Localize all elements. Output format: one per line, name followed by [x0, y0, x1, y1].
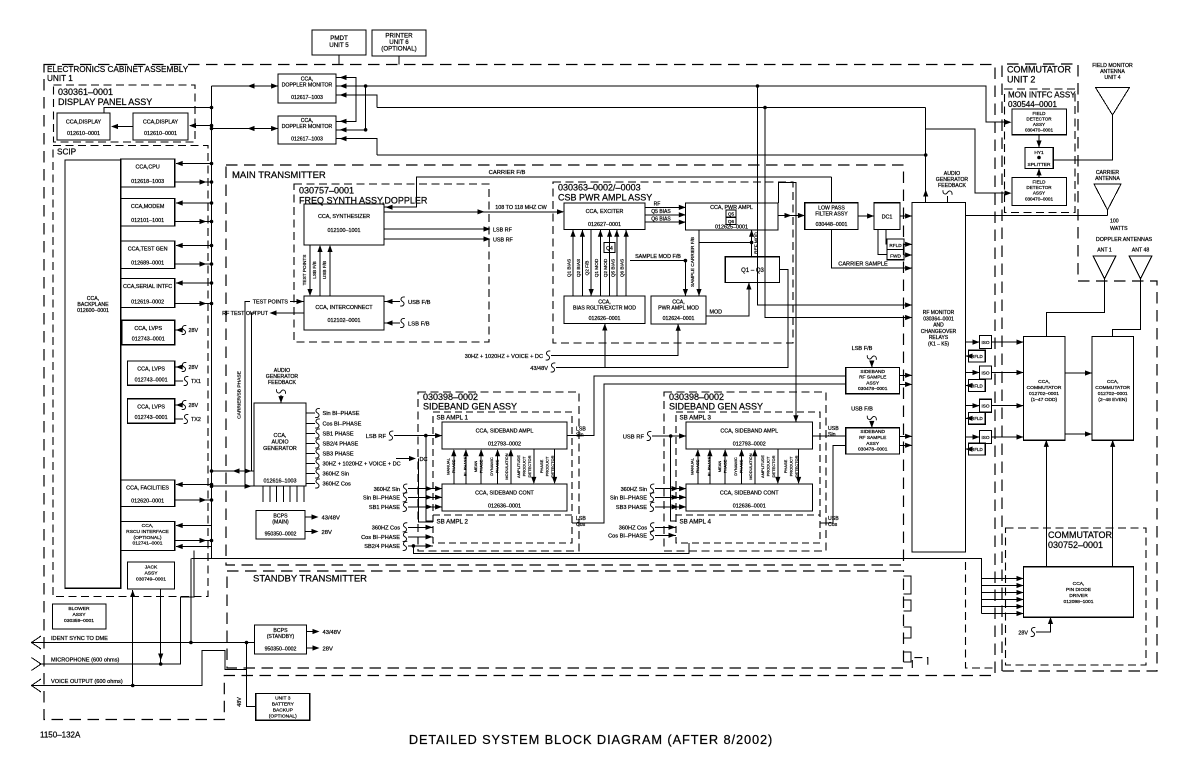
wire: Q1-Q3 output loop [605, 269, 788, 367]
wire: right gen cos-group inputs [655, 526, 676, 528]
svg-text:ASSY: ASSY [1033, 122, 1045, 127]
box: CCA,DISPLAY left 012610-0001 [57, 113, 110, 140]
wire: ANT 1 to commutator odd [1046, 279, 1104, 336]
box: CCA,DISPLAY right 012610-0001 [133, 113, 188, 140]
svg-text:IDENT SYNC TO DME: IDENT SYNC TO DME [51, 636, 108, 642]
svg-text:FWD: FWD [890, 253, 901, 258]
svg-text:030364–0001: 030364–0001 [923, 316, 954, 322]
box: BLOWER ASSY 030359-0001 [53, 604, 107, 629]
svg-text:48V: 48V [237, 697, 243, 707]
wire: carrier antenna 100 WATTS line [966, 210, 1108, 216]
svg-text:Q5: Q5 [728, 212, 735, 217]
svg-text:PRODUCT: PRODUCT [545, 456, 550, 476]
svg-text:ANT 1: ANT 1 [1097, 248, 1112, 254]
svg-text:BACKUP: BACKUP [273, 708, 293, 714]
svg-text:Q6 BIAS: Q6 BIAS [620, 259, 625, 277]
svg-text:(OPTIONAL): (OPTIONAL) [134, 535, 162, 541]
svg-text:ASSY: ASSY [866, 441, 880, 447]
svg-text:CSB PWR AMPL ASSY: CSB PWR AMPL ASSY [558, 193, 652, 203]
svg-text:PRODUCT: PRODUCT [522, 456, 527, 476]
box: RF MONITOR 030364-0001 AND CHANGEOVER RELAYS (K1 - K5) [912, 203, 966, 553]
svg-text:Q2 BIAS: Q2 BIAS [576, 259, 581, 277]
svg-text:SB AMPL 3: SB AMPL 3 [680, 415, 712, 422]
wire: CARRIER SAMPLE [831, 230, 911, 269]
wire: LSB Sin to sample assy [567, 376, 845, 435]
svg-text:PIN DIODE: PIN DIODE [1066, 587, 1092, 593]
wire: doppler lower right-side feeds [336, 130, 377, 155]
svg-text:28V: 28V [323, 647, 333, 653]
box: FIELD DETECTOR ASSY 030470-0001 upper [1012, 109, 1067, 135]
svg-text:CCA,: CCA, [672, 300, 684, 306]
svg-text:CCA,SERIAL INTFC: CCA,SERIAL INTFC [123, 284, 172, 290]
wire: pin diode driver to commutator even [1112, 441, 1114, 567]
wire: audio generator feedback drop [943, 190, 952, 195]
svg-text:BI–PHASE: BI–PHASE [707, 456, 712, 476]
svg-text:Q1 – Q3: Q1 – Q3 [741, 268, 764, 274]
svg-text:012616–1003: 012616–1003 [264, 479, 297, 485]
wire: jack assy to voice line [132, 590, 134, 686]
svg-text:012100–1001: 012100–1001 [328, 228, 361, 234]
svg-text:360HZ Cos: 360HZ Cos [323, 482, 351, 488]
svg-text:ANT 48: ANT 48 [1132, 248, 1150, 254]
wire: PRINTER stem [398, 56, 400, 65]
box: CCA, SYNTHESIZER 012100-1001 [304, 204, 384, 245]
svg-text:RFLD: RFLD [971, 383, 982, 388]
svg-text:43/48V: 43/48V [323, 630, 342, 636]
wire: display left box top to bus [104, 108, 212, 114]
svg-text:012600–0001: 012600–0001 [77, 308, 109, 314]
svg-text:012101–1001: 012101–1001 [131, 218, 164, 224]
svg-text:CCA, EXCITER: CCA, EXCITER [586, 209, 624, 215]
svg-text:RSCU INTERFACE: RSCU INTERFACE [126, 529, 169, 535]
svg-text:30HZ + 1020HZ + VOICE + DC: 30HZ + 1020HZ + VOICE + DC [323, 462, 401, 468]
box: CCA, SIDEBAND AMPL 012793-0002 [686, 422, 813, 449]
svg-text:030757–0001: 030757–0001 [299, 186, 354, 196]
svg-text:SB AMPL 2: SB AMPL 2 [437, 519, 469, 526]
svg-text:012793–0002: 012793–0002 [733, 442, 766, 448]
box: JACK ASSY 030749-0001 [128, 562, 175, 589]
svg-text:USB F/B: USB F/B [408, 300, 431, 306]
box: CCA, BIAS RGLTR/EXCTR MOD 012626-0001 [564, 296, 645, 324]
svg-text:030398–0002: 030398–0002 [423, 392, 478, 402]
box: CCA, DOPPLER MONITOR lower 012617-1003 [278, 116, 336, 144]
svg-text:012702–0001: 012702–0001 [1029, 391, 1059, 397]
box: CCA, PIN DIODE DRIVER 012098-1001 [1023, 567, 1133, 618]
component: ISO/RFLD relay taps [966, 341, 979, 343]
svg-text:TX2: TX2 [191, 417, 201, 423]
enclosure: COMMUTATOR 030752-0001 (dashed) [1006, 528, 1147, 665]
enclosure: FREQ SYNTH ASSY,DOPPLER 030757-0001 (dashed) [294, 184, 489, 342]
svg-text:012741–0001: 012741–0001 [133, 541, 163, 547]
box: Q4 [604, 242, 615, 252]
svg-text:MON INTFC ASSY: MON INTFC ASSY [1008, 91, 1076, 100]
wire: USB F/B squiggle into sample assy [867, 416, 876, 421]
svg-text:030398–0002: 030398–0002 [669, 392, 724, 402]
wire: USB Sin to sample assy [813, 435, 846, 437]
wire: field det 1 to splitter [1038, 135, 1040, 147]
svg-text:MODULATION: MODULATION [504, 453, 509, 479]
enclosure: ELECTRONICS CABINET ASSEMBLY UNIT 1 (dashed outline) [44, 65, 995, 720]
box: CCA,MODEM 012101-1001 with bus wires [121, 199, 175, 227]
svg-text:BCPS: BCPS [273, 514, 288, 520]
svg-text:012620–0001: 012620–0001 [131, 499, 164, 505]
svg-text:SB AMPL 4: SB AMPL 4 [680, 519, 712, 526]
svg-text:28V: 28V [189, 328, 199, 334]
svg-text:CARRIER F/B: CARRIER F/B [489, 170, 526, 176]
svg-text:RF SAMPLE: RF SAMPLE [859, 375, 886, 381]
svg-text:LSB RF: LSB RF [493, 228, 513, 234]
svg-text:LSB F/B: LSB F/B [852, 346, 873, 352]
svg-text:DETECTOR: DETECTOR [550, 455, 555, 477]
box: UNIT 3 BATTERY BACKUP (OPTIONAL) [256, 694, 310, 721]
svg-text:ISO: ISO [981, 371, 989, 376]
wire: USB sample outputs to RF monitor [900, 436, 912, 445]
svg-text:MEAN: MEAN [473, 461, 478, 473]
svg-text:COMMUTATOR: COMMUTATOR [1027, 385, 1062, 391]
svg-text:100: 100 [1110, 219, 1119, 225]
box: BCPS (MAIN) 950350-0002 [256, 511, 305, 540]
wire: 28V into pin diode driver [1036, 618, 1051, 632]
wire: jack assy to microphone line [160, 589, 162, 664]
enclosure: COMMUTATOR UNIT 2 (dashed) [1002, 64, 1157, 671]
wire: bus to display right box [190, 125, 212, 127]
svg-text:CCA, SIDEBAND AMPL: CCA, SIDEBAND AMPL [720, 429, 778, 435]
svg-text:(OPTIONAL): (OPTIONAL) [381, 46, 416, 53]
wire: USB RF stub [384, 238, 489, 240]
svg-text:SB3 PHASE: SB3 PHASE [323, 452, 354, 458]
svg-text:TX1: TX1 [191, 379, 201, 385]
node: SCIP bus vertical 1 [211, 86, 213, 559]
svg-text:BATTERY: BATTERY [272, 702, 295, 708]
svg-text:Cos BI–PHASE: Cos BI–PHASE [608, 534, 647, 540]
svg-text:AMPLITUDE: AMPLITUDE [760, 455, 765, 478]
svg-text:DETAILED SYSTEM BLOCK DIAGR: DETAILED SYSTEM BLOCK DIAGRAM (AFTER 8/2… [409, 732, 773, 747]
wire: left gen cos-group inputs [408, 526, 433, 528]
svg-text:Q5 BIAS: Q5 BIAS [651, 209, 671, 215]
svg-text:BIAS RGLTR/EXCTR MOD: BIAS RGLTR/EXCTR MOD [573, 306, 636, 312]
svg-text:360HZ Cos: 360HZ Cos [619, 526, 647, 532]
svg-text:PRODUCT: PRODUCT [766, 456, 771, 476]
wire: long line doppler to RF monitor (net B) [377, 107, 926, 109]
svg-text:LSB F/B: LSB F/B [408, 322, 430, 328]
wire: PWR AMPL RF out to low pass filter [778, 215, 804, 217]
svg-text:360HZ Sin: 360HZ Sin [374, 487, 400, 493]
wire: SAMPLE CARRIER F/B vertical [698, 230, 700, 296]
wire: MOD pwr-ampl-mod to Q1-Q3 [706, 283, 749, 316]
svg-text:ISO: ISO [981, 404, 989, 409]
svg-text:VOICE OUTPUT (600 ohms): VOICE OUTPUT (600 ohms) [51, 679, 123, 685]
wire: pwr ampl riser to USB sideband ampl [779, 182, 796, 421]
box: CCA, FACILITIES 012620-0001 with bus wires [121, 480, 175, 507]
wire: TEST POINTS vertical synth-interconnect [309, 245, 311, 295]
svg-text:108 TO 118 MHZ CW: 108 TO 118 MHZ CW [495, 205, 547, 211]
svg-text:030363–0002/–0003: 030363–0002/–0003 [558, 183, 641, 193]
wire: LPF to DC1 [858, 215, 873, 217]
svg-text:012689–0001: 012689–0001 [131, 261, 164, 267]
svg-text:(STANDBY): (STANDBY) [267, 634, 295, 640]
wire: LSB sample outputs to RF monitor [900, 375, 912, 384]
svg-text:SB AMPL 1: SB AMPL 1 [437, 415, 469, 422]
svg-text:030470–0001: 030470–0001 [1025, 196, 1054, 201]
svg-text:LSB F/B: LSB F/B [312, 261, 317, 278]
svg-text:Q6: Q6 [728, 219, 735, 224]
svg-text:CCA, SIDEBAND CONT: CCA, SIDEBAND CONT [475, 491, 534, 497]
port: IDENT SYNC TO DME chevron [32, 636, 42, 649]
wire: 108 TO 118 MHZ CW [384, 211, 563, 213]
box: CCA, INTERCONNECT 012102-0001 [304, 296, 384, 330]
wire: pin diode driver to commutator odd [1045, 441, 1047, 567]
svg-text:UNIT 1: UNIT 1 [47, 74, 73, 83]
box: FWD tag [887, 249, 904, 259]
svg-text:Cos BI–PHASE: Cos BI–PHASE [361, 535, 400, 541]
svg-text:012617–1003: 012617–1003 [291, 95, 323, 101]
svg-text:ASSY: ASSY [72, 612, 86, 618]
wire: LSB F/B squiggle into sample assy [867, 355, 876, 360]
wire: 48V battery feed [247, 643, 256, 707]
box: HY1 SPLITTER [1025, 147, 1053, 168]
box: CCA, EXCITER 012627-0001 [564, 203, 645, 230]
wire: CARRIER F/B [385, 177, 832, 207]
svg-text:CCA, INTERCONNECT: CCA, INTERCONNECT [315, 305, 373, 311]
svg-text:360HZ Sin: 360HZ Sin [323, 472, 349, 478]
svg-text:030359–0001: 030359–0001 [64, 618, 94, 624]
svg-text:360HZ Cos: 360HZ Cos [372, 526, 400, 532]
svg-text:BLOWER: BLOWER [68, 606, 90, 612]
wire: LSB F/B squiggle right of interconnect [384, 322, 400, 324]
wire: 30HZ + 1020HZ + VOICE + DC feed [551, 324, 678, 355]
box: PMDT UNIT 5 [312, 30, 366, 55]
svg-text:Sin: Sin [828, 432, 836, 438]
wire: field det 2 to splitter [1038, 169, 1040, 177]
svg-text:CCA,DISPLAY: CCA,DISPLAY [66, 120, 102, 126]
enclosure: step notch on standby bottom edge [912, 658, 928, 668]
svg-text:CCA,: CCA, [1073, 581, 1085, 587]
svg-text:950350–0002: 950350–0002 [265, 532, 297, 538]
box: Q1 - Q3 [725, 257, 779, 283]
svg-text:(K1 – K5): (K1 – K5) [928, 342, 949, 348]
svg-text:RFLD: RFLD [971, 447, 982, 452]
wire: right gen sin-group inputs [655, 488, 685, 490]
svg-text:PHASE: PHASE [539, 459, 544, 473]
box: LOW PASS FILTER ASSY 030448-0001 [805, 203, 858, 230]
svg-text:PHASE: PHASE [695, 459, 700, 473]
wire: PMDT stem [338, 55, 340, 65]
svg-text:FEEDBACK: FEEDBACK [268, 380, 297, 386]
svg-text:PHASE: PHASE [739, 459, 744, 473]
enclosure: SB AMPL 2 (dashed) [433, 515, 572, 543]
wire: six drive lines into pin diode driver [982, 578, 1023, 580]
svg-text:USB F/B: USB F/B [851, 407, 873, 413]
wire: left gen sin-group inputs [408, 488, 441, 490]
svg-text:CARRIER SAMPLE: CARRIER SAMPLE [838, 262, 888, 268]
svg-text:012743–0001: 012743–0001 [132, 337, 165, 343]
wire: vertical into RF monitor top [925, 108, 927, 203]
enclosure: CSB PWR AMPL ASSY 030363-0002/-0003 (dashed) [553, 182, 793, 343]
enclosure: SIDEBAND GEN ASSY 030398-0002 right (dashed) [664, 392, 826, 551]
box: CCA, COMMUTATOR 012702-0001 (2-48 EVEN) [1092, 337, 1134, 441]
svg-text:GENERATOR: GENERATOR [263, 446, 297, 452]
svg-text:CCA,: CCA, [598, 300, 610, 306]
box: CCA, SIDEBAND CONT 012636-0001 [686, 484, 813, 511]
box: RFLD tag [887, 239, 904, 249]
box: FIELD DETECTOR ASSY 030470-0001 lower [1012, 178, 1067, 206]
svg-text:28V: 28V [322, 530, 332, 536]
svg-text:SIDEBAND: SIDEBAND [860, 369, 885, 375]
svg-text:012627–0001: 012627–0001 [588, 222, 621, 228]
svg-text:CCA, LVPS: CCA, LVPS [134, 326, 162, 332]
box: SIDEBAND RF SAMPLE ASSY 030478-0001 (USB) [846, 428, 900, 454]
svg-text:MICROPHONE (600 ohms): MICROPHONE (600 ohms) [51, 658, 120, 664]
svg-text:RF SAMPLE: RF SAMPLE [859, 435, 886, 441]
svg-text:BCPS: BCPS [273, 628, 288, 634]
svg-text:MANUAL: MANUAL [446, 457, 451, 474]
svg-text:PHASE: PHASE [451, 459, 456, 473]
svg-text:030478–0001: 030478–0001 [858, 386, 888, 392]
svg-text:DETECTOR: DETECTOR [771, 455, 776, 477]
svg-text:SCIP: SCIP [57, 148, 77, 157]
wire: RFLD to RF monitor [904, 243, 911, 245]
svg-text:ANTENNA: ANTENNA [1095, 176, 1120, 182]
svg-text:ISO: ISO [981, 340, 989, 345]
enclosure: SB AMPL 4 (dashed) [676, 515, 820, 543]
svg-text:DC1: DC1 [882, 215, 893, 221]
svg-text:DETECTOR: DETECTOR [1026, 116, 1052, 121]
wire: DC input to left sideband gen [396, 459, 433, 522]
svg-text:Sin BI–PHASE: Sin BI–PHASE [323, 411, 360, 417]
svg-text:CCA,MODEM: CCA,MODEM [131, 204, 165, 210]
svg-text:030749–0001: 030749–0001 [136, 576, 166, 582]
wire: MICROPHONE (600 ohms) [41, 551, 194, 665]
svg-text:28V: 28V [189, 365, 199, 371]
svg-text:ASSY: ASSY [866, 380, 880, 386]
wire: BCPS main 43/48V out [305, 516, 317, 518]
wire: doppler bus drop 1 to RF monitor [758, 86, 912, 305]
wire: cross wire to right gen SB AMPL 4 [413, 543, 689, 554]
box: CCA, PWR AMPL 012625-0001 [686, 203, 779, 230]
svg-text:PHASE: PHASE [479, 459, 484, 473]
svg-text:HY1: HY1 [1034, 150, 1044, 156]
box: CCA,TEST GEN 012689-0001 with bus wires [121, 241, 175, 269]
svg-text:012743–0001: 012743–0001 [135, 377, 168, 383]
box: PRINTER UNIT 6 (OPTIONAL) [372, 30, 426, 56]
svg-text:UNIT 5: UNIT 5 [329, 42, 349, 49]
svg-text:LSB RF: LSB RF [366, 434, 387, 440]
svg-text:SB2/4 PHASE: SB2/4 PHASE [323, 442, 359, 448]
enclosure: DISPLAY PANEL ASSY 030361-0001 (dashed) [54, 85, 196, 142]
svg-text:030544–0001: 030544–0001 [1008, 100, 1057, 109]
box: CCA, DOPPLER MONITOR upper 012617-1003 [278, 74, 336, 103]
wire: LSB Cos to sample assy [572, 384, 845, 523]
wire: phase control arrows between ampl and cont [453, 450, 455, 484]
enclosure: SCIP (dashed) [53, 146, 208, 597]
svg-text:RFLD: RFLD [971, 354, 982, 359]
box: CCA, LVPS 1 012743-0001 28V [122, 320, 175, 344]
svg-text:JACK: JACK [145, 565, 158, 571]
svg-text:USB RF: USB RF [493, 238, 513, 244]
svg-text:CCA,CPU: CCA,CPU [135, 165, 159, 171]
box: SIDEBAND RF SAMPLE ASSY 030478-0001 (LSB) [846, 367, 900, 393]
wire: audio generator left links [212, 471, 255, 486]
svg-text:SIDEBAND GEN ASSY: SIDEBAND GEN ASSY [669, 402, 763, 412]
wire: LSB F/B vertical [319, 246, 321, 296]
svg-text:DETECTOR: DETECTOR [1026, 185, 1052, 190]
svg-text:SAMPLE MOD F/B: SAMPLE MOD F/B [635, 254, 681, 260]
svg-text:Q4: Q4 [606, 246, 613, 252]
enclosure: MON INTFC ASSY 030544-0001 (dashed) [1005, 89, 1076, 213]
svg-text:Q5 BIAS: Q5 BIAS [610, 259, 615, 277]
wire: audio generator outputs with squiggles [306, 412, 315, 414]
svg-text:PWR AMPL MOD: PWR AMPL MOD [658, 306, 699, 312]
svg-text:(OPTIONAL): (OPTIONAL) [269, 714, 297, 720]
svg-text:CCA, FACILITIES: CCA, FACILITIES [126, 486, 169, 492]
svg-text:ASSY: ASSY [144, 570, 158, 576]
svg-text:STANDBY TRANSMITTER: STANDBY TRANSMITTER [253, 574, 367, 585]
wire: SAMPLE MOD F/B [630, 261, 685, 296]
wire: LSB RF stub [384, 228, 489, 230]
svg-text:950350–0002: 950350–0002 [265, 647, 297, 653]
box: CCA, RSCU INTERFACE (OPTIONAL) 012741-0001 [121, 522, 175, 551]
svg-text:TEST POINTS: TEST POINTS [253, 300, 289, 306]
svg-text:SB1 PHASE: SB1 PHASE [369, 505, 400, 511]
box: Q6 [726, 217, 736, 224]
svg-text:UNIT 4: UNIT 4 [1104, 75, 1120, 81]
svg-text:TEST POINTS: TEST POINTS [302, 255, 307, 286]
svg-text:012618–1003: 012618–1003 [131, 179, 164, 185]
svg-text:012098–1001: 012098–1001 [1064, 599, 1094, 605]
svg-text:PHASE: PHASE [495, 459, 500, 473]
svg-text:030448–0001: 030448–0001 [816, 222, 848, 228]
box: CCA, SIDEBAND CONT 012636-0001 [442, 484, 567, 511]
svg-text:030470–0001: 030470–0001 [1025, 128, 1054, 133]
svg-text:DOPPLER MONITOR: DOPPLER MONITOR [282, 124, 333, 130]
svg-text:PHASE: PHASE [723, 459, 728, 473]
svg-text:012619–0002: 012619–0002 [131, 300, 164, 306]
svg-text:SB1 PHASE: SB1 PHASE [323, 432, 354, 438]
svg-text:SB3 PHASE: SB3 PHASE [616, 505, 647, 511]
wire: field monitor antenna to splitter [1053, 115, 1112, 160]
svg-text:CCA, SIDEBAND AMPL: CCA, SIDEBAND AMPL [476, 429, 534, 435]
svg-text:CCA,: CCA, [1107, 379, 1119, 385]
wire: RF TEST OUTPUT stub left [271, 312, 304, 314]
wire: commutator odd to even links [1065, 373, 1091, 434]
svg-text:ISO: ISO [981, 435, 989, 440]
svg-text:43/48V: 43/48V [530, 366, 548, 372]
wire: Q5 BIAS exciter to pwr ampl [645, 214, 685, 216]
svg-text:RFLD: RFLD [971, 416, 982, 421]
svg-text:CARRIER/SB PHASE: CARRIER/SB PHASE [237, 370, 243, 419]
svg-text:RFLD: RFLD [889, 243, 902, 248]
port: MICROPHONE chevron [32, 658, 42, 671]
wire: bias verticals Q1 BIAS..Q6 BIAS [572, 230, 574, 296]
wire: BCPS standby 43/48V out [307, 631, 319, 633]
svg-text:RF TEST OUTPUT: RF TEST OUTPUT [222, 311, 269, 317]
wire: audio feedback into audio generator [276, 389, 285, 394]
wire: BCPS standby 28V out [307, 647, 319, 649]
wire: doppler vertical link A [365, 86, 367, 130]
box: CCA, AUDIO GENERATOR 012616-1003 [254, 403, 306, 486]
wire: LSB RF input [394, 436, 441, 521]
enclosure: MAIN TRANSMITTER (dashed) [226, 165, 904, 565]
svg-text:FIELD: FIELD [1032, 111, 1046, 116]
svg-text:USB RF: USB RF [623, 435, 645, 441]
wire: doppler bus drop 2 to RF monitor [765, 108, 911, 318]
svg-text:030752–0001: 030752–0001 [1048, 540, 1103, 550]
svg-text:MOD: MOD [710, 310, 723, 316]
svg-text:PHASE: PHASE [783, 459, 788, 473]
wire: USB F/B vertical [329, 246, 331, 296]
svg-text:012102–0001: 012102–0001 [328, 318, 361, 324]
svg-text:Q1 MOD: Q1 MOD [594, 258, 599, 277]
